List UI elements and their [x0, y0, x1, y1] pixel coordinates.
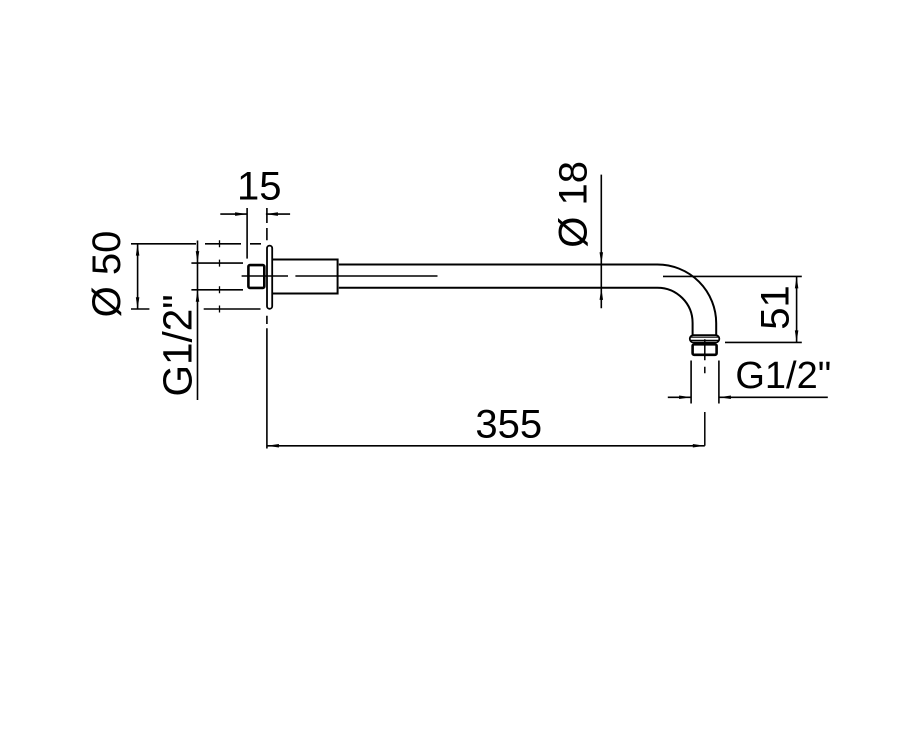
tube: wide escutcheon section [269, 260, 338, 294]
arrow: dim-18 lower (points up) [600, 288, 604, 300]
wire: dim-355 dimension line [267, 445, 705, 447]
wire: G1/2 right extension left [690, 361, 692, 404]
nipple: collar thread line 2 [690, 339, 719, 341]
svg-text:355: 355 [475, 402, 542, 446]
wire: G1/2 left dimension line [197, 241, 199, 401]
nut: wall-side square thread connector [248, 265, 264, 288]
svg-text:G1/2": G1/2" [155, 294, 201, 396]
nipple: hex body [693, 344, 717, 355]
arrow: dim-50 down [136, 297, 140, 309]
arrow: dim-51 up [795, 276, 799, 288]
arrow: G1/2 left upper (points down) [196, 251, 200, 263]
arrow: G1/2 left lower (points up) [196, 290, 200, 302]
flange: wall flange disc (edge view) [267, 246, 272, 309]
nipple: threaded collar [690, 335, 720, 342]
wire: G1/2 right dimension line right segment [719, 396, 828, 398]
arrow: dim-18 upper (points down) [600, 252, 604, 264]
wire: vertical center line through outlet [704, 339, 706, 446]
svg-text:G1/2": G1/2" [735, 355, 831, 397]
svg-text:15: 15 [237, 164, 282, 208]
wire: dim-50 top extension line [131, 243, 261, 245]
wire: G1/2 right extension right [718, 361, 720, 404]
svg-text:Ø 50: Ø 50 [85, 231, 129, 318]
arrow: G1/2 right left (points right) [679, 396, 691, 400]
wire: dim-15 dimension line right segment [266, 213, 290, 215]
wire: G1/2 left extension bottom [191, 289, 243, 291]
tube: main arm with 90-degree bend (white fill) [339, 265, 716, 335]
wire: horizontal center line of arm axis [242, 275, 438, 277]
wire: dim-18 dimension line [600, 175, 602, 309]
arrow: G1/2 right right (points left) [719, 396, 731, 400]
tube: main arm with 90-degree bend (outline) [339, 265, 716, 335]
wire: dim-15 left extension line [246, 208, 248, 259]
wire: dim-50 dimension line [137, 244, 139, 310]
arrow: dim-15 right (points left) [266, 212, 278, 216]
wire: dim-51 bottom extension line [725, 341, 802, 343]
wire: tick marks on extension lines [219, 240, 221, 312]
wire: G1/2 right dimension line left segment [668, 396, 691, 398]
wire: dim-51 dimension line [796, 276, 798, 342]
arrow: dim-355 right [693, 444, 705, 448]
wire: dim-355 left extension line [266, 316, 268, 449]
wire: dim-15 right extension line (wall plane, dashed) [266, 208, 268, 240]
wire: dim-51 top extension line [663, 275, 802, 277]
wire: dim-50 bottom extension line [131, 308, 261, 310]
arrow: dim-50 up [136, 244, 140, 256]
svg-text:Ø 18: Ø 18 [552, 161, 596, 248]
arrow: dim-15 left (points right) [235, 212, 247, 216]
wire: dim-15 dimension line left segment [220, 213, 247, 215]
nipple: collar thread line 1 [690, 336, 719, 338]
arrow: dim-51 down [795, 330, 799, 342]
arrow: dim-355 left [267, 444, 279, 448]
svg-text:51: 51 [754, 285, 798, 330]
wire: G1/2 left extension top [191, 262, 243, 264]
